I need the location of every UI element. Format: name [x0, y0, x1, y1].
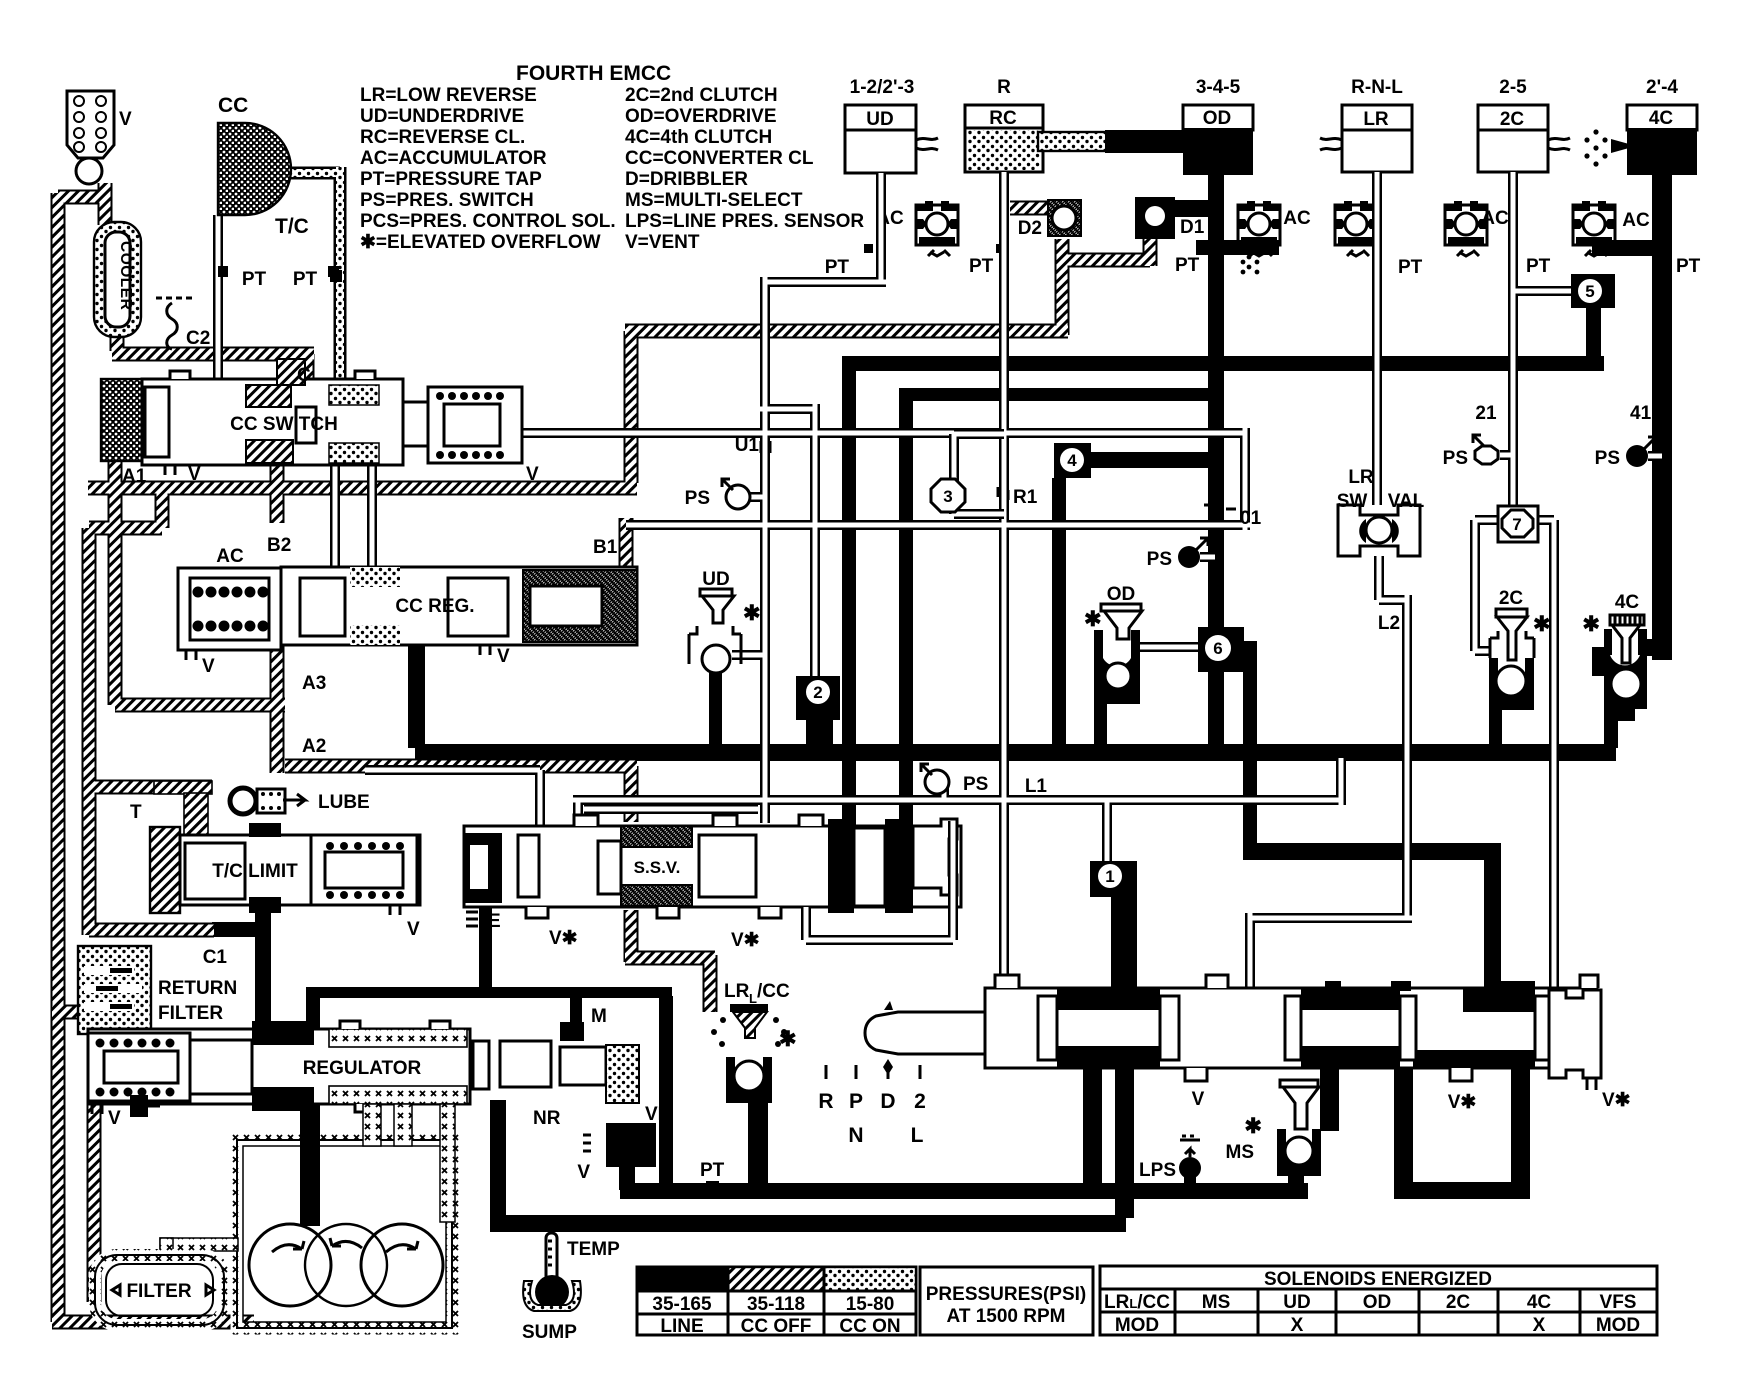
svg-text:D2: D2 — [1018, 218, 1042, 239]
svg-text:4C=4th CLUTCH: 4C=4th CLUTCH — [625, 127, 772, 148]
svg-text:UD: UD — [702, 569, 729, 590]
svg-text:PT: PT — [293, 269, 318, 290]
svg-text:AT 1500 RPM: AT 1500 RPM — [947, 1306, 1066, 1327]
svg-text:LRL/CC: LRL/CC — [1104, 1292, 1170, 1313]
svg-text:6: 6 — [1213, 639, 1222, 658]
svg-text:2: 2 — [813, 683, 822, 702]
svg-text:/CC: /CC — [757, 981, 790, 1002]
svg-text:SW: SW — [1337, 491, 1368, 512]
svg-text:7: 7 — [1512, 515, 1521, 534]
svg-text:B1: B1 — [593, 537, 618, 558]
svg-text:L2: L2 — [1378, 613, 1400, 634]
svg-text:35-165: 35-165 — [652, 1294, 712, 1315]
svg-text:MOD: MOD — [1115, 1315, 1159, 1336]
svg-text:X: X — [1533, 1315, 1546, 1336]
svg-text:U1: U1 — [735, 435, 760, 456]
svg-text:L: L — [911, 1124, 924, 1147]
svg-text:R1: R1 — [1013, 487, 1038, 508]
svg-text:V: V — [1192, 1089, 1205, 1110]
svg-text:C: C — [297, 365, 311, 386]
svg-text:PT: PT — [825, 257, 850, 278]
svg-text:LR: LR — [1348, 467, 1374, 488]
svg-text:PT: PT — [969, 256, 994, 277]
svg-text:PT: PT — [1526, 256, 1551, 277]
svg-text:PS: PS — [1443, 448, 1468, 469]
svg-text:D: D — [880, 1090, 895, 1113]
svg-text:41: 41 — [1630, 403, 1652, 424]
svg-text:OD: OD — [1203, 108, 1232, 129]
svg-text:MS=MULTI-SELECT: MS=MULTI-SELECT — [625, 190, 803, 211]
svg-text:A2: A2 — [302, 736, 326, 757]
svg-text:R-N-L: R-N-L — [1351, 77, 1403, 98]
svg-text:D=DRIBBLER: D=DRIBBLER — [625, 169, 748, 190]
svg-text:PT=PRESSURE TAP: PT=PRESSURE TAP — [360, 169, 542, 190]
svg-text:MS: MS — [1202, 1292, 1231, 1313]
svg-text:L1: L1 — [1025, 776, 1048, 797]
svg-text:V✱: V✱ — [1602, 1090, 1631, 1111]
svg-text:V: V — [119, 109, 132, 130]
svg-text:PS=PRES. SWITCH: PS=PRES. SWITCH — [360, 190, 534, 211]
svg-text:CC ON: CC ON — [839, 1316, 900, 1337]
svg-text:3: 3 — [943, 487, 952, 506]
svg-text:21: 21 — [1475, 403, 1497, 424]
svg-text:CC OFF: CC OFF — [741, 1316, 812, 1337]
svg-text:LR=LOW REVERSE: LR=LOW REVERSE — [360, 85, 537, 106]
svg-text:35-118: 35-118 — [747, 1294, 805, 1315]
svg-text:PT: PT — [1398, 257, 1423, 278]
svg-text:V=VENT: V=VENT — [625, 232, 700, 253]
svg-text:V✱: V✱ — [731, 930, 760, 951]
svg-text:V✱: V✱ — [1448, 1092, 1477, 1113]
svg-text:VFS: VFS — [1600, 1292, 1637, 1313]
svg-text:OD: OD — [1107, 584, 1136, 605]
svg-text:TEMP: TEMP — [567, 1239, 620, 1260]
svg-text:1: 1 — [1105, 867, 1114, 886]
svg-text:RETURN: RETURN — [158, 978, 237, 999]
svg-text:AC: AC — [216, 546, 244, 567]
svg-text:4C: 4C — [1649, 108, 1674, 129]
svg-text:T: T — [130, 802, 142, 823]
svg-text:V: V — [202, 656, 215, 677]
svg-text:V: V — [526, 464, 539, 485]
svg-text:LPS: LPS — [1139, 1160, 1176, 1181]
svg-text:✱: ✱ — [1084, 608, 1102, 631]
svg-text:A1: A1 — [122, 466, 147, 487]
svg-text:R: R — [997, 77, 1011, 98]
svg-text:PCS=PRES. CONTROL SOL.: PCS=PRES. CONTROL SOL. — [360, 211, 616, 232]
svg-text:2-5: 2-5 — [1499, 77, 1527, 98]
svg-text:15-80: 15-80 — [846, 1294, 895, 1315]
svg-text:VAL: VAL — [1388, 491, 1425, 512]
svg-text:PT: PT — [1175, 255, 1200, 276]
svg-text:✱: ✱ — [1533, 613, 1551, 636]
svg-text:RC: RC — [989, 108, 1017, 129]
svg-text:AC=ACCUMULATOR: AC=ACCUMULATOR — [360, 148, 547, 169]
svg-text:✱: ✱ — [1244, 1115, 1262, 1138]
svg-text:2C: 2C — [1499, 588, 1524, 609]
svg-text:UD: UD — [1283, 1292, 1310, 1313]
svg-text:✱: ✱ — [779, 1028, 797, 1051]
svg-text:4C: 4C — [1615, 592, 1640, 613]
svg-text:PS: PS — [685, 488, 710, 509]
svg-text:M: M — [591, 1006, 607, 1027]
svg-text:OD: OD — [1363, 1292, 1392, 1313]
svg-text:4: 4 — [1067, 451, 1077, 470]
svg-text:PT: PT — [1676, 256, 1701, 277]
svg-text:CC: CC — [218, 94, 248, 117]
svg-text:2C: 2C — [1500, 109, 1525, 130]
svg-text:VF: VF — [645, 1104, 669, 1125]
svg-text:3-4-5: 3-4-5 — [1196, 77, 1241, 98]
svg-text:UD: UD — [866, 109, 893, 130]
svg-text:S.S.V.: S.S.V. — [634, 858, 681, 877]
svg-text:FILTER: FILTER — [158, 1003, 223, 1024]
svg-text:X: X — [1291, 1315, 1304, 1336]
svg-text:L: L — [749, 991, 757, 1006]
svg-text:2: 2 — [914, 1090, 926, 1113]
svg-text:5: 5 — [1585, 282, 1594, 301]
svg-text:FILTER: FILTER — [126, 1281, 191, 1302]
svg-text:V: V — [188, 464, 201, 485]
svg-text:PT: PT — [242, 269, 267, 290]
svg-text:C2: C2 — [186, 328, 210, 349]
svg-text:SOLENOIDS ENERGIZED: SOLENOIDS ENERGIZED — [1264, 1269, 1492, 1290]
svg-text:PS: PS — [1147, 549, 1172, 570]
svg-text:RC=REVERSE CL.: RC=REVERSE CL. — [360, 127, 525, 148]
svg-text:D1: D1 — [1180, 217, 1205, 238]
svg-text:A3: A3 — [302, 673, 326, 694]
svg-text:PS: PS — [1595, 448, 1620, 469]
svg-text:AC: AC — [1283, 208, 1311, 229]
svg-text:LR: LR — [724, 981, 750, 1002]
svg-text:2'-4: 2'-4 — [1646, 77, 1678, 98]
svg-text:V: V — [497, 646, 510, 667]
svg-text:V: V — [108, 1108, 121, 1129]
svg-text:PCS: PCS — [613, 1137, 648, 1156]
svg-text:B2: B2 — [267, 535, 291, 556]
svg-text:✱: ✱ — [1582, 613, 1600, 636]
svg-text:NR: NR — [533, 1108, 561, 1129]
svg-text:P: P — [849, 1090, 863, 1113]
svg-text:MOD: MOD — [1596, 1315, 1640, 1336]
svg-text:01: 01 — [1240, 508, 1262, 529]
svg-text:V: V — [407, 919, 420, 940]
svg-text:SUMP: SUMP — [522, 1322, 577, 1343]
svg-text:REGULATOR: REGULATOR — [303, 1058, 422, 1079]
svg-text:MS: MS — [1226, 1142, 1255, 1163]
svg-text:PT: PT — [700, 1160, 725, 1181]
svg-text:CC REG.: CC REG. — [395, 596, 474, 617]
svg-text:LINE: LINE — [660, 1316, 703, 1337]
svg-text:2C=2nd CLUTCH: 2C=2nd CLUTCH — [625, 85, 778, 106]
svg-text:1-2/2'-3: 1-2/2'-3 — [850, 77, 915, 98]
svg-text:V✱: V✱ — [549, 928, 578, 949]
svg-text:V: V — [577, 1162, 590, 1183]
svg-text:LUBE: LUBE — [318, 792, 370, 813]
svg-text:CC=CONVERTER CL: CC=CONVERTER CL — [625, 148, 814, 169]
svg-text:C1: C1 — [203, 947, 228, 968]
svg-text:2C: 2C — [1446, 1292, 1471, 1313]
svg-text:N: N — [848, 1124, 863, 1147]
svg-text:T/C: T/C — [275, 215, 309, 238]
svg-text:CC SWITCH: CC SWITCH — [230, 414, 338, 435]
svg-text:✱: ✱ — [743, 602, 761, 625]
svg-text:AC: AC — [1481, 208, 1509, 229]
svg-text:LR: LR — [1363, 109, 1389, 130]
svg-text:E: E — [488, 911, 501, 932]
svg-text:PRESSURES(PSI): PRESSURES(PSI) — [926, 1284, 1086, 1305]
svg-text:UD=UNDERDRIVE: UD=UNDERDRIVE — [360, 106, 524, 127]
svg-text:AC: AC — [1622, 210, 1650, 231]
svg-text:R: R — [818, 1090, 833, 1113]
svg-text:PS: PS — [963, 774, 988, 795]
svg-text:LPS=LINE PRES. SENSOR: LPS=LINE PRES. SENSOR — [625, 211, 864, 232]
svg-text:FOURTH EMCC: FOURTH EMCC — [516, 62, 671, 85]
svg-text:OD=OVERDRIVE: OD=OVERDRIVE — [625, 106, 777, 127]
svg-text:4C: 4C — [1527, 1292, 1552, 1313]
svg-text:COOLER: COOLER — [117, 241, 134, 310]
svg-text:T/C LIMIT: T/C LIMIT — [212, 861, 298, 882]
svg-text:✱=ELEVATED OVERFLOW: ✱=ELEVATED OVERFLOW — [360, 232, 601, 253]
